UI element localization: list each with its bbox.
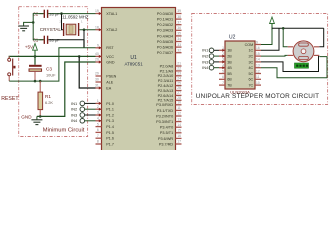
svg-text:P1.4: P1.4 (106, 125, 114, 129)
U1 pin 34 P0.5/AD5 (157, 37, 182, 44)
svg-text:32: 32 (177, 48, 181, 52)
node junction on rail (282, 27, 285, 30)
wire EA tie high (79, 56, 95, 88)
label UNIPOLAR STEPPER MOTOR CIRCUIT (196, 93, 319, 100)
U1 pin 17 P3.7/RD (159, 140, 182, 147)
svg-text:P0.6/AD6: P0.6/AD6 (157, 46, 173, 50)
svg-text:15: 15 (256, 52, 260, 56)
crystal X1 11.0592 MHZ (40, 15, 89, 37)
svg-text:16: 16 (177, 134, 181, 138)
node junction R1 bottom (39, 115, 42, 118)
svg-text:12: 12 (256, 69, 260, 73)
svg-text:P2.0/A8: P2.0/A8 (160, 64, 174, 68)
U2 pin 6 6B (219, 75, 232, 82)
svg-text:1: 1 (97, 99, 99, 103)
svg-text:AT89C51: AT89C51 (124, 61, 143, 66)
U2 pin 9 COM (245, 40, 261, 47)
svg-text:9: 9 (97, 44, 99, 48)
svg-text:27: 27 (177, 91, 181, 95)
svg-text:Minimum Circuit: Minimum Circuit (43, 128, 85, 134)
svg-text:P2.6/A14: P2.6/A14 (158, 94, 174, 98)
svg-text:U2: U2 (229, 34, 236, 40)
svg-text:VCC: VCC (106, 55, 114, 59)
svg-text:IN4: IN4 (71, 118, 78, 123)
svg-text:1C: 1C (248, 49, 253, 53)
U2 pin 7 7B (219, 81, 232, 88)
svg-text:35: 35 (177, 32, 181, 36)
wire C1 to XTAL2 branch (48, 30, 84, 40)
svg-text:6: 6 (97, 128, 99, 132)
svg-text:9: 9 (256, 40, 258, 44)
svg-text:IN1: IN1 (202, 48, 209, 53)
dashed enclosure: Minimum Circuit box (19, 7, 88, 137)
wire +5V rail top (272, 27, 324, 29)
svg-text:24: 24 (177, 76, 181, 80)
U1 pin 39 P0.0/AD0 (157, 9, 182, 16)
U1 pin 22 P2.1/A9 (160, 67, 182, 74)
svg-text:11: 11 (177, 106, 181, 110)
svg-text:P0.0/AD0: P0.0/AD0 (157, 12, 173, 16)
svg-text:19: 19 (95, 9, 99, 13)
node IN2 terminal left (71, 107, 96, 112)
U1 pin 26 P2.5/A13 (158, 86, 182, 93)
U1 pin 30 ALE (95, 78, 114, 85)
svg-text:P3.7/RD: P3.7/RD (159, 142, 174, 146)
U1 pin 21 P2.0/A8 (160, 62, 182, 69)
svg-text:P0.4/AD4: P0.4/AD4 (157, 34, 173, 38)
power +5V symbol right (270, 17, 275, 30)
svg-text:P2.4/A12: P2.4/A12 (158, 84, 174, 88)
svg-text:3: 3 (97, 111, 99, 115)
ground symbol crystal section (18, 26, 29, 31)
resistor R1 6.2K (38, 81, 53, 116)
svg-text:12: 12 (177, 112, 181, 116)
svg-text:7B: 7B (227, 84, 232, 88)
svg-text:IN4: IN4 (202, 65, 209, 70)
U1 pin 15 P3.5/T1 (160, 129, 182, 136)
wire rail to motor right top lead (319, 28, 323, 47)
U1 pin 20 GND (95, 58, 115, 65)
svg-text:IN2: IN2 (71, 107, 78, 112)
svg-text:10: 10 (177, 101, 181, 105)
U1 pin 6 P1.5 (96, 128, 114, 135)
svg-text:GND: GND (21, 115, 32, 120)
node junction at EA branch (78, 55, 81, 58)
svg-text:GND: GND (106, 60, 115, 64)
svg-text:XTAL1: XTAL1 (106, 12, 117, 16)
U1 pin 40 VCC (95, 52, 114, 59)
U1 pin 35 P0.4/AD4 (157, 32, 182, 39)
svg-text:37: 37 (177, 20, 181, 24)
svg-text:IN1: IN1 (71, 101, 78, 106)
U1 pin 7 P1.6 (96, 134, 114, 141)
node junction R1 top (39, 80, 42, 83)
U1 pin 4 P1.3 (96, 117, 114, 124)
svg-text:P2.7/A15: P2.7/A15 (158, 99, 174, 103)
svg-text:33 pF: 33 pF (49, 11, 60, 16)
node junction on XTAL1 wire (60, 12, 63, 15)
svg-text:2: 2 (222, 52, 224, 56)
wire XTAL2 net (79, 29, 95, 31)
svg-text:10UF: 10UF (46, 72, 56, 77)
svg-text:IN2: IN2 (202, 54, 209, 59)
svg-text:P0.3/AD3: P0.3/AD3 (157, 29, 173, 33)
svg-text:P1.0: P1.0 (106, 102, 114, 106)
svg-text:34: 34 (177, 37, 181, 41)
motor display green panel (295, 63, 309, 68)
svg-text:6.2K: 6.2K (45, 100, 53, 105)
wire 1C up to rail (261, 28, 279, 50)
svg-text:4C: 4C (248, 66, 253, 70)
darlington driver U2 ULN2003A (225, 34, 255, 94)
svg-text:11.0592 MHZ: 11.0592 MHZ (62, 15, 89, 20)
svg-text:14: 14 (256, 58, 260, 62)
svg-text:13: 13 (256, 64, 260, 68)
wire 2C to motor left bottom lead (261, 54, 288, 57)
svg-text:7: 7 (97, 134, 99, 138)
push button RESET (1, 56, 19, 102)
U1 pin 37 P0.2/AD2 (157, 20, 182, 27)
svg-text:UNIPOLAR STEPPER MOTOR CIRCUIT: UNIPOLAR STEPPER MOTOR CIRCUIT (196, 93, 319, 100)
ground symbol bottom (21, 115, 42, 125)
node IN3 terminal left (71, 112, 96, 117)
svg-text:U1: U1 (130, 55, 137, 61)
node IN1 terminal left (71, 101, 96, 106)
U2 pin 15 2C (248, 52, 261, 59)
U1 pin 28 P2.7/A15 (158, 96, 182, 103)
svg-text:P3.0/RXD: P3.0/RXD (156, 103, 173, 107)
svg-text:20: 20 (95, 58, 99, 62)
U2 pin 4 4B (219, 64, 232, 71)
svg-text:15: 15 (177, 129, 181, 133)
capacitor C2 (33, 10, 60, 18)
node IN4 terminal right (202, 65, 219, 70)
svg-text:IN3: IN3 (202, 59, 209, 64)
svg-text:ALE: ALE (106, 80, 114, 84)
U1 pin 32 P0.7/AD7 (157, 48, 182, 55)
svg-text:5: 5 (222, 69, 224, 73)
U2 pin 3 3B (219, 58, 232, 65)
node IN2 terminal right (202, 54, 219, 59)
svg-text:22: 22 (177, 67, 181, 71)
U1 pin 13 P3.3/INT1 (156, 117, 181, 124)
svg-text:40: 40 (95, 52, 99, 56)
U1 pin 18 XTAL2 (95, 25, 117, 32)
svg-text:7: 7 (222, 81, 224, 85)
svg-text:3C: 3C (248, 60, 253, 64)
svg-text:C3: C3 (46, 67, 52, 72)
svg-text:10: 10 (256, 81, 260, 85)
U1 pin 23 P2.2/A10 (158, 72, 182, 79)
svg-text:P1.7: P1.7 (106, 142, 114, 146)
U2 pin 16 1C (248, 46, 261, 53)
svg-text:39: 39 (177, 9, 181, 13)
U1 pin 11 P3.1/TXD (157, 106, 182, 113)
wire C1 C2 ground side (33, 14, 43, 40)
svg-text:XTAL2: XTAL2 (106, 28, 117, 32)
node junction C3 bottom (34, 80, 37, 83)
svg-text:P3.3/INT1: P3.3/INT1 (156, 120, 173, 124)
svg-text:1: 1 (222, 46, 224, 50)
svg-text:P2.5/A13: P2.5/A13 (158, 89, 174, 93)
svg-text:P0.2/AD2: P0.2/AD2 (157, 23, 173, 27)
svg-text:P1.6: P1.6 (106, 137, 114, 141)
wire small vertical to RST row (83, 40, 85, 48)
svg-text:P3.6/WR: P3.6/WR (158, 137, 173, 141)
svg-text:7C: 7C (248, 84, 253, 88)
wire GND net (37, 62, 96, 116)
svg-text:17: 17 (177, 140, 181, 144)
motor M1 unipolar stepper (288, 41, 320, 62)
U2 pin 2 2B (219, 52, 232, 59)
svg-text:P1.1: P1.1 (106, 108, 114, 112)
svg-text:14: 14 (177, 123, 181, 127)
svg-text:21: 21 (177, 62, 181, 66)
svg-text:COM: COM (245, 43, 254, 47)
U1 pin 3 P1.2 (96, 111, 114, 118)
svg-text:6B: 6B (227, 78, 232, 82)
svg-text:+5V: +5V (25, 45, 34, 50)
svg-text:P1.2: P1.2 (106, 113, 114, 117)
capacitor C1 (33, 36, 60, 44)
svg-text:16: 16 (256, 46, 260, 50)
svg-text:1B: 1B (227, 49, 232, 53)
node junction at +5V (34, 55, 37, 58)
U2 pin 11 6C (248, 75, 261, 82)
svg-text:P1.3: P1.3 (106, 119, 114, 123)
svg-text:CRYSTAL: CRYSTAL (40, 27, 62, 32)
U1 pin 27 P2.6/A14 (158, 91, 182, 98)
U2 pin 10 7C (248, 81, 261, 88)
svg-text:P2.1/A9: P2.1/A9 (160, 69, 174, 73)
dashed enclosure: Unipolar Stepper Motor Circuit box (192, 14, 328, 105)
microcontroller U1 AT89C51 (102, 8, 176, 155)
wire rail to motor left top lead (283, 28, 288, 47)
svg-text:4B: 4B (227, 66, 232, 70)
svg-text:2C: 2C (248, 55, 253, 59)
svg-text:P0.7/AD7: P0.7/AD7 (157, 51, 173, 55)
U1 pin 36 P0.3/AD3 (157, 26, 182, 33)
svg-text:3: 3 (222, 58, 224, 62)
U1 pin 33 P0.6/AD6 (157, 43, 182, 50)
U1 pin 1 P1.0 (96, 99, 114, 106)
U2 pin 13 4C (248, 64, 261, 71)
svg-text:6C: 6C (248, 78, 253, 82)
U1 pin 19 XTAL1 (95, 9, 117, 16)
svg-text:29: 29 (95, 72, 99, 76)
U1 pin 38 P0.1/AD1 (157, 15, 182, 22)
U2 pin 5 5B (219, 69, 232, 76)
wire 4C wrap around bottom (261, 57, 327, 78)
U1 pin 25 P2.4/A12 (158, 81, 182, 88)
svg-text:P2.3/A11: P2.3/A11 (158, 79, 173, 83)
svg-text:25: 25 (177, 81, 181, 85)
svg-text:P3.4/T0: P3.4/T0 (160, 126, 173, 130)
wire XTAL1 net (48, 13, 96, 15)
svg-text:6: 6 (222, 75, 224, 79)
svg-text:PSEN: PSEN (106, 74, 116, 78)
svg-text:RST: RST (106, 46, 114, 50)
U1 pin 2 P1.1 (96, 105, 114, 112)
svg-text:R1: R1 (45, 94, 51, 99)
svg-text:8: 8 (97, 140, 99, 144)
svg-text:P3.2/INT0: P3.2/INT0 (156, 114, 173, 118)
svg-text:4: 4 (97, 117, 99, 121)
svg-text:P0.1/AD1: P0.1/AD1 (157, 18, 173, 22)
U1 pin 24 P2.3/A11 (158, 76, 182, 83)
U1 pin 5 P1.4 (96, 122, 114, 129)
svg-text:30: 30 (95, 78, 99, 82)
svg-text:5B: 5B (227, 72, 232, 76)
svg-text:28: 28 (177, 96, 181, 100)
U1 pin 9 RST (96, 44, 115, 51)
svg-text:3B: 3B (227, 60, 232, 64)
node junction ground branch (32, 21, 35, 24)
U2 pin 14 3C (248, 58, 261, 65)
svg-text:5C: 5C (248, 72, 253, 76)
svg-text:P2.2/A10: P2.2/A10 (158, 74, 174, 78)
capacitor C3 10UF (29, 56, 56, 81)
svg-text:P3.1/TXD: P3.1/TXD (157, 109, 174, 113)
U1 pin 31 EA (95, 84, 112, 91)
svg-text:36: 36 (177, 26, 181, 30)
U2 pin 1 1B (219, 46, 232, 53)
power +5V symbol left (25, 44, 38, 57)
U1 pin 29 PSEN (95, 72, 117, 79)
node IN4 terminal left (71, 118, 96, 123)
node IN3 terminal right (202, 59, 219, 64)
U1 pin 12 P3.2/INT0 (156, 112, 181, 119)
U1 pin 8 P1.7 (96, 140, 114, 147)
svg-text:RESET: RESET (1, 96, 19, 102)
wire 3C to motor right bottom lead (261, 55, 319, 71)
svg-text:P1.5: P1.5 (106, 131, 114, 135)
svg-text:P3.5/T1: P3.5/T1 (160, 131, 173, 135)
wire VCC net (9, 56, 95, 58)
svg-text:IN3: IN3 (71, 112, 78, 117)
svg-text:5: 5 (97, 122, 99, 126)
wire ground branch (24, 22, 34, 25)
svg-text:2: 2 (97, 105, 99, 109)
svg-text:31: 31 (95, 84, 99, 88)
U2 pin 12 5C (248, 69, 261, 76)
U1 pin 14 P3.4/T0 (160, 123, 182, 130)
svg-text:11: 11 (256, 75, 260, 79)
svg-text:18: 18 (95, 25, 99, 29)
svg-text:EA: EA (106, 86, 111, 90)
svg-text:P0.5/AD5: P0.5/AD5 (157, 40, 173, 44)
svg-text:23: 23 (177, 72, 181, 76)
U1 pin 16 P3.6/WR (158, 134, 182, 141)
label Minimum Circuit (43, 128, 85, 134)
U1 pin 10 P3.0/RXD (156, 101, 181, 108)
svg-text:4: 4 (222, 64, 224, 68)
svg-text:33: 33 (177, 43, 181, 47)
svg-text:26: 26 (177, 86, 181, 90)
wire RST net (9, 48, 95, 81)
wire crystal left lead (62, 14, 64, 30)
svg-text:2B: 2B (227, 55, 232, 59)
svg-text:38: 38 (177, 15, 181, 19)
svg-text:13: 13 (177, 117, 181, 121)
node junction on XTAL2 wire (83, 28, 86, 31)
wire COM to +5V (261, 27, 272, 45)
node IN1 terminal right (202, 48, 219, 53)
